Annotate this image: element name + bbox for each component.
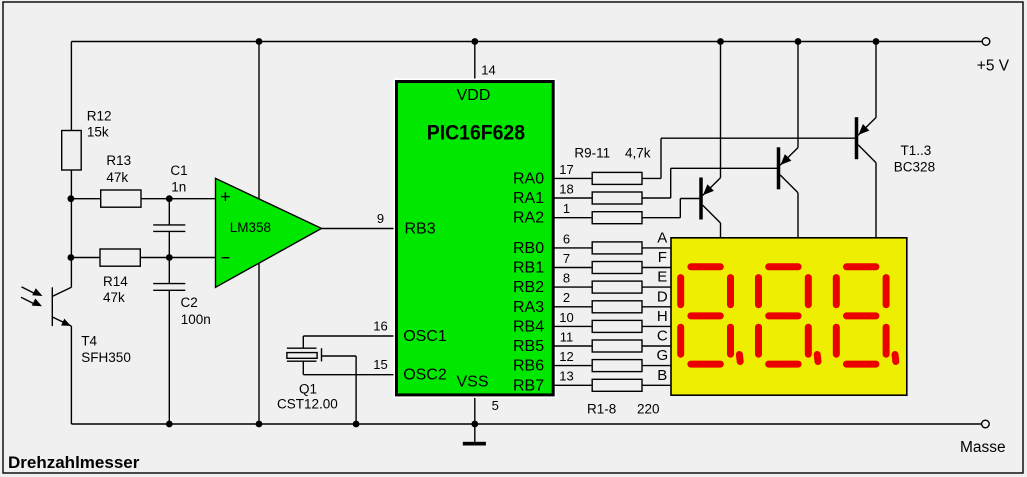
svg-text:B: B — [657, 367, 667, 384]
svg-text:10: 10 — [559, 310, 573, 325]
svg-text:CST12.00: CST12.00 — [277, 397, 338, 412]
svg-text:18: 18 — [559, 181, 573, 196]
svg-text:RB4: RB4 — [513, 318, 544, 335]
svg-text:RB2: RB2 — [513, 279, 544, 296]
svg-text:5: 5 — [492, 398, 499, 413]
svg-text:47k: 47k — [106, 170, 128, 185]
svg-text:9: 9 — [377, 211, 384, 226]
svg-text:100n: 100n — [181, 312, 211, 327]
svg-text:8: 8 — [563, 271, 570, 286]
svg-text:4,7k: 4,7k — [625, 146, 651, 161]
svg-text:17: 17 — [559, 162, 573, 177]
svg-text:Masse: Masse — [960, 439, 1006, 456]
svg-text:Drehzahlmesser: Drehzahlmesser — [8, 453, 140, 472]
svg-text:15k: 15k — [87, 125, 109, 140]
svg-text:+5 V: +5 V — [977, 58, 1010, 75]
svg-text:R9-11: R9-11 — [574, 146, 610, 161]
svg-text:1n: 1n — [171, 179, 186, 194]
svg-text:G: G — [656, 347, 668, 364]
svg-text:RA2: RA2 — [513, 210, 544, 227]
svg-text:RA1: RA1 — [513, 190, 544, 207]
svg-text:12: 12 — [559, 349, 573, 364]
svg-text:T4: T4 — [81, 333, 97, 348]
svg-text:A: A — [657, 229, 667, 246]
svg-text:15: 15 — [373, 357, 387, 372]
svg-text:VDD: VDD — [457, 87, 491, 104]
svg-text:R13: R13 — [106, 153, 131, 168]
svg-text:13: 13 — [559, 369, 573, 384]
svg-text:RB1: RB1 — [513, 260, 544, 277]
svg-text:220: 220 — [637, 402, 660, 417]
svg-text:F: F — [658, 249, 667, 266]
svg-text:RA0: RA0 — [513, 170, 544, 187]
svg-text:RB6: RB6 — [513, 358, 544, 375]
svg-text:C1: C1 — [170, 163, 187, 178]
svg-text:RB0: RB0 — [513, 240, 544, 257]
svg-text:7: 7 — [563, 251, 570, 266]
svg-text:T1..3: T1..3 — [901, 143, 932, 158]
svg-text:RA3: RA3 — [513, 299, 544, 316]
svg-text:RB7: RB7 — [513, 377, 544, 394]
svg-text:47k: 47k — [103, 290, 125, 305]
svg-text:RB5: RB5 — [513, 338, 544, 355]
svg-text:OSC1: OSC1 — [403, 328, 447, 345]
svg-text:PIC16F628: PIC16F628 — [427, 121, 525, 144]
svg-text:H: H — [657, 308, 668, 325]
svg-text:OSC2: OSC2 — [403, 367, 447, 384]
svg-text:VSS: VSS — [456, 373, 488, 390]
svg-text:R12: R12 — [87, 109, 112, 124]
svg-text:Q1: Q1 — [299, 382, 317, 397]
svg-text:E: E — [657, 269, 667, 286]
svg-text:C: C — [657, 328, 668, 345]
svg-text:6: 6 — [563, 231, 570, 246]
svg-text:16: 16 — [373, 318, 387, 333]
svg-text:1: 1 — [563, 201, 570, 216]
svg-text:2: 2 — [563, 290, 570, 305]
svg-text:SFH350: SFH350 — [81, 350, 131, 365]
svg-text:R14: R14 — [103, 274, 128, 289]
svg-text:BC328: BC328 — [894, 160, 935, 175]
svg-text:D: D — [657, 288, 668, 305]
svg-text:11: 11 — [560, 329, 574, 344]
svg-text:LM358: LM358 — [230, 220, 271, 235]
svg-text:14: 14 — [481, 63, 495, 78]
svg-text:C2: C2 — [181, 295, 198, 310]
svg-text:RB3: RB3 — [405, 220, 436, 237]
svg-text:R1-8: R1-8 — [587, 402, 616, 417]
